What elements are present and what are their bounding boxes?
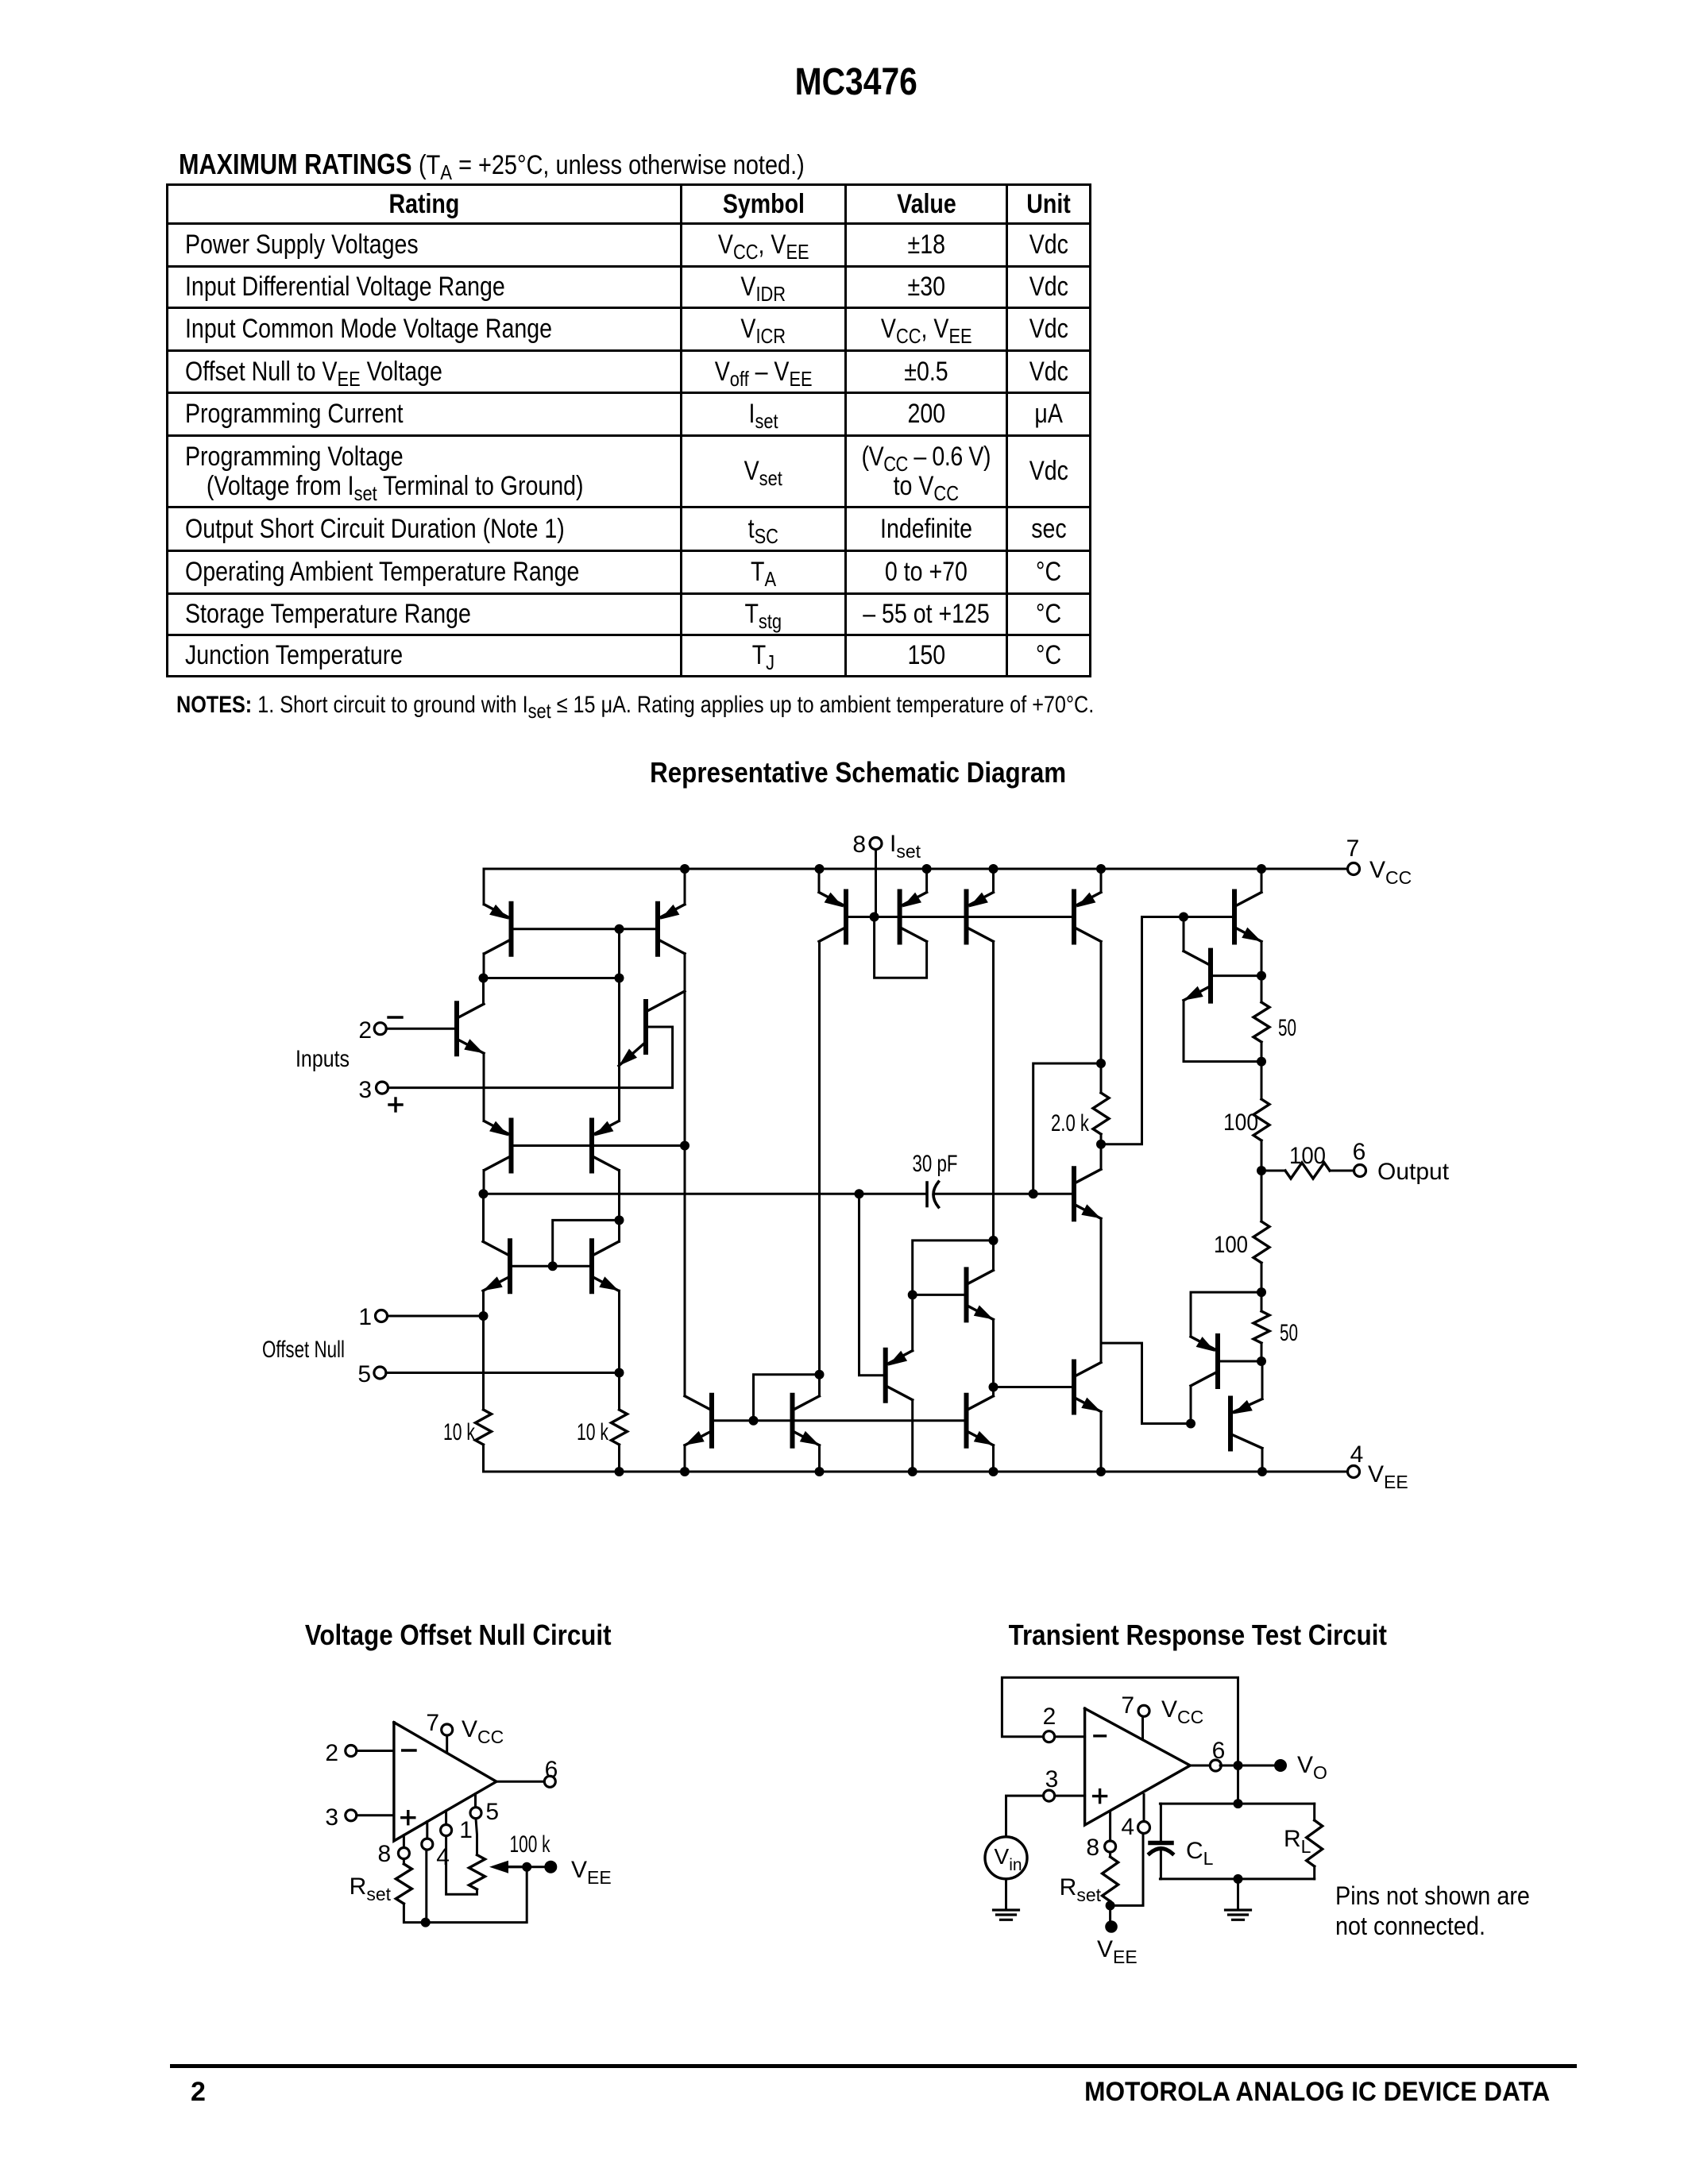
svg-text:3: 3 bbox=[325, 1804, 338, 1831]
wire Q3 collector bbox=[482, 978, 485, 1005]
wire Q9B emitter bbox=[818, 1445, 821, 1472]
svg-text:7: 7 bbox=[1346, 835, 1360, 862]
pin 4 stub bbox=[1121, 1795, 1149, 1840]
wire Q11 emitter bbox=[992, 1319, 995, 1387]
wire Q9 bases line bbox=[712, 1416, 967, 1426]
pin 3 input bbox=[325, 1804, 356, 1831]
heading Representative Schematic Diagram bbox=[14, 756, 1688, 789]
wire pin2 to Q3 base bbox=[386, 1028, 457, 1030]
svg-text:VEE: VEE bbox=[1368, 1461, 1408, 1492]
transistor Q12 NPN bbox=[967, 1395, 994, 1446]
pin 7 VCC terminal bbox=[1346, 835, 1412, 888]
wire pot bottom to pin1 bbox=[446, 1836, 477, 1895]
resistor R4 50 bbox=[1253, 1002, 1296, 1042]
wire Q8C collector bbox=[992, 942, 995, 1241]
VEE terminal bbox=[1097, 1920, 1138, 1967]
resistor Rset bbox=[350, 1859, 412, 1905]
wire Q9A emitter bbox=[684, 1445, 686, 1472]
wire pin4 down bbox=[425, 1850, 427, 1923]
wire Rset bottom bbox=[404, 1867, 527, 1927]
wire Q9B collector U-link bbox=[754, 1370, 825, 1421]
transistor Q8B mirror PNP (diode) bbox=[900, 892, 927, 943]
wire Q18 emitter link bbox=[1191, 1292, 1261, 1337]
note pins not connected bbox=[1335, 1881, 1551, 1941]
footer page number bbox=[191, 2077, 206, 2108]
wire pin8 to mirror base bbox=[875, 850, 877, 917]
svg-text:8: 8 bbox=[852, 832, 866, 858]
transistor Q5 PNP bbox=[485, 1121, 512, 1171]
wire Q13 base line bbox=[994, 1386, 1075, 1388]
svg-text:50: 50 bbox=[1278, 1015, 1296, 1041]
svg-text:7: 7 bbox=[1121, 1692, 1134, 1719]
source Vin bbox=[985, 1796, 1044, 1879]
svg-text:Iset: Iset bbox=[890, 831, 921, 862]
svg-text:VCC: VCC bbox=[1161, 1696, 1203, 1727]
wire Q8D emitter bbox=[1100, 869, 1103, 893]
resistor Rset bbox=[1060, 1852, 1118, 1905]
wire Q11 collector-base U-link bbox=[908, 1241, 994, 1300]
pin 7 VCC bbox=[426, 1710, 504, 1753]
node Rset bottom bbox=[1106, 1900, 1115, 1920]
heading Voltage Offset Null Circuit bbox=[0, 1619, 916, 1652]
wire cap to Q10 base bbox=[936, 1189, 1075, 1198]
transistor Q10 PNP second stage bbox=[886, 1350, 913, 1401]
wire VCC top rail bbox=[484, 868, 1348, 870]
wire Q6 emitter feed bbox=[618, 978, 620, 1121]
pin 5 stub bbox=[470, 1794, 499, 1825]
transistor Q8D mirror PNP bbox=[1074, 892, 1101, 943]
node dots on VCC rail bbox=[680, 864, 1266, 874]
wire Q13 emitter bbox=[1100, 1412, 1103, 1472]
svg-text:10 k: 10 k bbox=[577, 1419, 609, 1445]
transistor Q6 PNP bbox=[592, 1121, 619, 1171]
wire pin5 bbox=[386, 1368, 624, 1378]
wire Q6 collector bbox=[615, 1171, 624, 1242]
svg-text:CL: CL bbox=[1186, 1838, 1214, 1869]
op-amp U1 triangle bbox=[394, 1723, 496, 1841]
svg-text:3: 3 bbox=[1045, 1766, 1059, 1792]
svg-text:1: 1 bbox=[459, 1817, 473, 1843]
transistor Q9A NPN sink bbox=[685, 1395, 712, 1446]
svg-text:Inputs: Inputs bbox=[295, 1046, 350, 1072]
wire Q14 collector bbox=[1100, 1144, 1103, 1170]
svg-text:10 k: 10 k bbox=[443, 1419, 476, 1445]
wire Q8B emitter bbox=[925, 869, 928, 893]
svg-text:7: 7 bbox=[426, 1710, 439, 1736]
svg-text:2: 2 bbox=[325, 1740, 338, 1766]
VO terminal bbox=[1274, 1752, 1327, 1783]
wire node A horizontal bbox=[479, 974, 624, 983]
svg-text:6: 6 bbox=[1212, 1738, 1226, 1764]
pin 8 stub bbox=[378, 1835, 410, 1867]
wire Q8A emitter bbox=[818, 869, 821, 893]
resistor R1 10k bbox=[443, 1410, 492, 1445]
wire Q17 emitter bbox=[1261, 1361, 1264, 1399]
notes line bbox=[176, 692, 1269, 719]
wire pin3 to Q4 base bbox=[388, 1027, 673, 1088]
label Inputs bbox=[295, 1046, 350, 1072]
wire Q13 collector to Q14 emitter bbox=[1100, 1218, 1103, 1362]
wire Q10 emitter bbox=[911, 1295, 914, 1350]
pin 8 stub bbox=[1086, 1812, 1115, 1861]
svg-text:Offset Null: Offset Null bbox=[262, 1337, 345, 1363]
svg-text:100: 100 bbox=[1223, 1109, 1258, 1136]
resistor R5 100 bbox=[1223, 1099, 1269, 1140]
svg-text:8: 8 bbox=[1086, 1835, 1099, 1861]
footer rule bbox=[170, 2064, 1577, 2068]
pin 2 inverting input bbox=[358, 1017, 402, 1044]
pin 3 input bbox=[1044, 1766, 1059, 1801]
wire R8 leads bbox=[1261, 1292, 1263, 1361]
wire Q5 collector bbox=[483, 1171, 485, 1194]
wire Q2 collector bbox=[684, 954, 686, 1396]
wire pin1 bbox=[388, 1315, 484, 1318]
svg-text:100: 100 bbox=[1214, 1232, 1248, 1258]
pin 6 output bbox=[544, 1757, 558, 1787]
wire Q1 emitter bbox=[483, 869, 485, 905]
wire Q9B collector bbox=[818, 1375, 821, 1396]
wire Q11 collector bbox=[989, 1236, 999, 1271]
VEE terminal bbox=[527, 1857, 612, 1888]
wire pin3 bbox=[1055, 1795, 1085, 1797]
svg-text:Rset: Rset bbox=[350, 1873, 392, 1904]
wire R4 to output node bbox=[1257, 1042, 1266, 1099]
svg-text:VEE: VEE bbox=[1097, 1936, 1138, 1967]
svg-text:6: 6 bbox=[545, 1757, 558, 1783]
wire output bbox=[1190, 1765, 1208, 1767]
wire mirror bases line bbox=[846, 916, 1074, 918]
wire Q2 emitter bbox=[684, 869, 686, 905]
wire Q18 collector bbox=[1186, 1386, 1196, 1429]
svg-text:100: 100 bbox=[1289, 1143, 1326, 1169]
transistor Q15 NPN output bbox=[1234, 892, 1261, 943]
wire Q9 base feed bbox=[859, 1194, 886, 1375]
feedback loop bbox=[1002, 1677, 1238, 1765]
svg-text:100 k: 100 k bbox=[510, 1831, 551, 1858]
ground load bbox=[1226, 1879, 1251, 1920]
pin 6 output terminal bbox=[1353, 1139, 1450, 1185]
resistor R2 10k bbox=[577, 1410, 628, 1445]
op-amp U2 triangle bbox=[1085, 1708, 1191, 1825]
transistor Q4 input NPN bbox=[619, 991, 685, 1066]
plus sign bbox=[402, 1812, 415, 1824]
wire base-to-collector link bbox=[618, 929, 620, 978]
node dot pin8 base junction bbox=[870, 913, 879, 922]
transistor Q18 PNP bbox=[1191, 1336, 1218, 1387]
wire 2k bottom to bias node bbox=[1101, 913, 1234, 1144]
svg-text:Output: Output bbox=[1377, 1159, 1450, 1185]
wire second stage input line bbox=[479, 1189, 927, 1198]
wire Q10 collector bbox=[911, 1400, 914, 1472]
wire Q7A emitter to pin1 bbox=[479, 1291, 489, 1410]
svg-text:4: 4 bbox=[1121, 1814, 1134, 1840]
resistor RL bbox=[1284, 1804, 1323, 1879]
transistor Q3 input NPN bbox=[457, 1003, 484, 1054]
wire R7 to node bbox=[1257, 1263, 1266, 1297]
transistor Q7B NPN bbox=[592, 1241, 619, 1291]
wire pin3 bbox=[357, 1814, 394, 1816]
wire R5 to output bbox=[1257, 1140, 1266, 1221]
svg-text:3: 3 bbox=[358, 1077, 372, 1103]
ground Vin bbox=[994, 1879, 1019, 1920]
svg-text:4: 4 bbox=[1350, 1441, 1364, 1468]
wire link to 2k top bbox=[1033, 1059, 1106, 1194]
wire Q3 emitter bbox=[483, 1053, 485, 1121]
transistor Q14 NPN cascode bbox=[1074, 1168, 1101, 1219]
svg-text:8: 8 bbox=[378, 1841, 392, 1867]
wire Q16 base bbox=[1211, 974, 1261, 977]
transistor Q16 NPN bias bbox=[1184, 951, 1211, 1001]
svg-text:2: 2 bbox=[358, 1017, 372, 1044]
pin 8 Iset terminal bbox=[852, 831, 921, 862]
pin 6 output bbox=[1210, 1738, 1225, 1771]
pin 3 noninverting input bbox=[358, 1077, 402, 1111]
wire Q8B collector U-link to pin8 bbox=[875, 917, 927, 978]
resistor R6 100 output bbox=[1285, 1143, 1330, 1179]
svg-text:5: 5 bbox=[485, 1799, 499, 1825]
minus sign bbox=[1095, 1734, 1106, 1737]
transistor Q8C mirror PNP bbox=[967, 892, 994, 943]
wire output resistor leads bbox=[1261, 1170, 1354, 1172]
wire pin4 to Rset node bbox=[1110, 1834, 1143, 1906]
wire Q16 emitter bbox=[1184, 1001, 1261, 1062]
capacitor C1 30 pF bbox=[913, 1151, 958, 1207]
wire Q8C emitter bbox=[992, 869, 995, 893]
section heading MAXIMUM RATINGS bbox=[179, 148, 915, 181]
pin 2 input bbox=[325, 1740, 356, 1766]
svg-text:4: 4 bbox=[436, 1844, 450, 1870]
pin 1 stub bbox=[441, 1811, 473, 1843]
wire Q11 base bbox=[913, 1294, 967, 1296]
wire Q5 Q6 base line bbox=[512, 1141, 690, 1151]
pin 4 stub bbox=[422, 1822, 450, 1870]
resistor R7 100 bbox=[1214, 1221, 1269, 1263]
wire VEE bottom rail bbox=[484, 1471, 1348, 1473]
wire Q7A Q7B base line bbox=[510, 1261, 592, 1271]
transistor Q1 lateral PNP bbox=[485, 904, 512, 955]
wire Z-link to Q17 base bbox=[1101, 1343, 1191, 1423]
wire Q15 emitter bbox=[1257, 942, 1266, 1003]
wire Q12 collector bbox=[989, 1383, 999, 1396]
transistor Q7A NPN bbox=[483, 1241, 510, 1291]
svg-text:2: 2 bbox=[1043, 1704, 1056, 1730]
wire R1 to rail bbox=[482, 1445, 485, 1472]
svg-text:VEE: VEE bbox=[571, 1857, 612, 1888]
wire Q1 collector bbox=[483, 954, 485, 978]
wiper arrow bbox=[489, 1861, 531, 1873]
wire Q7B emitter to pin5 bbox=[618, 1291, 620, 1410]
label Offset Null bbox=[262, 1337, 345, 1363]
transistor Q9B NPN sink (diode) bbox=[793, 1395, 820, 1446]
svg-text:50: 50 bbox=[1280, 1320, 1298, 1346]
pin 7 VCC bbox=[1121, 1692, 1203, 1739]
wire 2k leads bbox=[1096, 1063, 1106, 1149]
svg-text:VO: VO bbox=[1297, 1752, 1327, 1783]
transistor Q8A mirror PNP bbox=[819, 892, 846, 943]
svg-text:5: 5 bbox=[357, 1361, 371, 1387]
plus sign bbox=[1094, 1790, 1107, 1803]
pin 2 input bbox=[1043, 1704, 1056, 1742]
transistor Q11 NPN (diode) bbox=[967, 1269, 994, 1320]
wire load box bottom bbox=[1160, 1874, 1314, 1884]
wire load box top bbox=[1160, 1803, 1314, 1805]
maximum ratings table bbox=[166, 183, 1091, 677]
wire R2 to rail bbox=[618, 1445, 620, 1472]
wire base U-link to Q6 collector bbox=[553, 1220, 620, 1266]
wire Q12 emitter bbox=[992, 1445, 995, 1472]
capacitor CL bbox=[1149, 1804, 1214, 1879]
pin 4 VEE terminal bbox=[1348, 1441, 1408, 1492]
wire Q8A collector bbox=[818, 942, 821, 1375]
wire pin6 to VO bbox=[1220, 1761, 1274, 1770]
pin 5 offset null bbox=[357, 1361, 386, 1387]
svg-text:VCC: VCC bbox=[462, 1716, 504, 1747]
resistor R8 50 bbox=[1253, 1311, 1298, 1346]
minus sign bbox=[403, 1749, 415, 1751]
wire Q1 Q2 base line bbox=[512, 924, 659, 934]
svg-text:30 pF: 30 pF bbox=[913, 1151, 958, 1177]
wire Q8D collector bbox=[1100, 942, 1103, 1064]
wire Q15 collector bbox=[1261, 869, 1263, 893]
transistor Q13 NPN driver bbox=[1074, 1362, 1101, 1413]
pin 1 offset null bbox=[358, 1304, 387, 1330]
svg-text:Rset: Rset bbox=[1060, 1874, 1102, 1905]
svg-text:RL: RL bbox=[1284, 1826, 1311, 1857]
footer imprint bbox=[0, 2077, 1550, 2108]
wire Q17 collector bbox=[1261, 1449, 1264, 1472]
wire Q7A collector bbox=[482, 1194, 485, 1241]
wire Q16 collector bbox=[1183, 917, 1185, 951]
transistor Q2 lateral PNP bbox=[658, 904, 685, 955]
potentiometer 100k bbox=[469, 1819, 551, 1889]
transistor Q17 PNP output bbox=[1230, 1399, 1262, 1449]
wire to load box bbox=[1234, 1765, 1243, 1808]
svg-text:6: 6 bbox=[1353, 1139, 1366, 1165]
wire pin2 bbox=[357, 1750, 394, 1752]
wire output bbox=[496, 1781, 544, 1783]
node dots on VEE rail bbox=[615, 1467, 1268, 1476]
wire pin2 bbox=[1055, 1735, 1085, 1738]
svg-text:VCC: VCC bbox=[1369, 857, 1412, 888]
heading Transient Response Test Circuit bbox=[840, 1619, 1555, 1652]
wire Q18 base bbox=[1218, 1356, 1266, 1366]
svg-text:2.0 k: 2.0 k bbox=[1051, 1110, 1090, 1136]
page title MC3476 bbox=[12, 60, 1688, 104]
resistor R3 2.0k bbox=[1051, 1093, 1109, 1136]
svg-text:1: 1 bbox=[358, 1304, 372, 1330]
